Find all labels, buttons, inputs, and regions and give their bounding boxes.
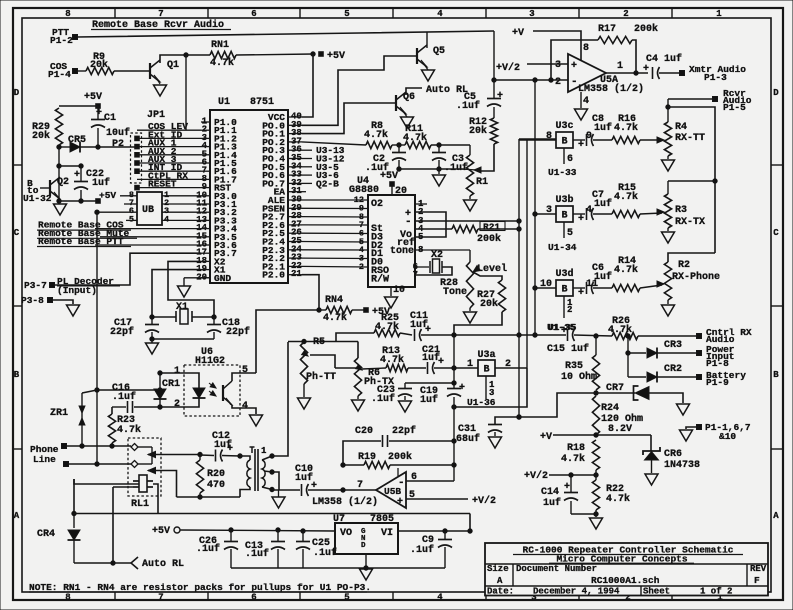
svg-text:C1: C1	[104, 113, 116, 124]
svg-text:NOTE: RN1 - RN4 are resistor p: NOTE: RN1 - RN4 are resistor packs for p…	[29, 582, 371, 593]
svg-text:1uf: 1uf	[420, 394, 438, 406]
svg-text:+: +	[561, 326, 567, 337]
transistor Q2	[40, 187, 50, 189]
svg-text:68uf: 68uf	[456, 433, 480, 445]
transformer ground	[272, 497, 285, 508]
U1 left pin stubs	[201, 121, 210, 123]
svg-text:LM358 (1/2): LM358 (1/2)	[578, 83, 644, 95]
svg-text:1N4738: 1N4738	[664, 460, 700, 471]
JP1 pin wires rows 2-9	[137, 129, 201, 131]
svg-text:22pf: 22pf	[392, 425, 416, 437]
wire +V rail	[553, 434, 651, 436]
wire U1 P2.0 to RN4 rail	[302, 275, 319, 310]
op-amp U5B triangle	[376, 472, 406, 508]
svg-text:tone: tone	[390, 246, 414, 257]
RL1 contact 2	[131, 461, 138, 468]
Q5 emitter ground	[422, 70, 435, 81]
svg-text:B: B	[562, 211, 568, 222]
bus wire x535 opamp to rail	[534, 80, 536, 335]
svg-text:Auto RL: Auto RL	[142, 559, 184, 570]
svg-text:U1-32: U1-32	[23, 193, 52, 204]
svg-text:D: D	[14, 88, 20, 98]
wire U1 EA stub	[302, 191, 306, 193]
svg-text:P1-2: P1-2	[50, 35, 73, 46]
Q5 collector to PTT line	[426, 33, 428, 49]
U1 port0 net labels U3-13 U3-12 U3-5 U3-6 Q2-B	[302, 149, 312, 151]
svg-text:CR6: CR6	[664, 449, 682, 460]
wire +5V down to U1 VCC pin40	[302, 54, 313, 117]
wiper rail y368 to R6	[335, 367, 358, 369]
wire R2 top	[668, 253, 715, 262]
U6 light arrows	[210, 383, 217, 390]
svg-text:20k: 20k	[90, 59, 108, 71]
node P1-1,6,7 and 10	[697, 425, 702, 430]
wire PTT line to C5 top	[77, 31, 494, 37]
svg-text:Level: Level	[477, 263, 507, 275]
svg-text:2: 2	[555, 77, 561, 88]
svg-text:RL1: RL1	[131, 499, 149, 510]
C2-C3 bottom wire to R1 wiper	[399, 168, 465, 170]
svg-text:+: +	[571, 61, 577, 72]
node Xmtr Audio P1-3	[680, 71, 685, 76]
svg-text:RX-Phone: RX-Phone	[672, 271, 720, 283]
wire CR1 top from U6 pin1	[159, 373, 161, 390]
svg-text:(Input): (Input)	[57, 285, 97, 296]
svg-text:C20: C20	[355, 426, 373, 437]
resistor R21 200k	[415, 228, 452, 230]
svg-text:22pf: 22pf	[226, 326, 250, 338]
corner up to R25 rail	[336, 333, 374, 342]
U3d pin10 wire	[535, 287, 556, 289]
svg-text:.1uf: .1uf	[456, 100, 480, 112]
svg-text:GND: GND	[214, 273, 231, 284]
wire upper phone node	[97, 389, 160, 391]
wire C31 net	[495, 393, 596, 424]
svg-text:RN4: RN4	[325, 295, 343, 306]
R27 right leg bottom wire	[454, 312, 502, 335]
RL1 arm2 feed wire down	[112, 487, 114, 563]
wire CR4 to auto RL	[74, 562, 113, 564]
wire rcvr audio node	[668, 98, 715, 100]
node Rcvr Audio P1-5	[713, 97, 718, 102]
potentiometer R27 left body	[469, 250, 471, 262]
svg-text:P1-5: P1-5	[723, 102, 746, 113]
svg-text:7: 7	[357, 480, 363, 491]
U3c pin8 wire	[519, 139, 556, 141]
bus wire x518 R21 to C31 net	[519, 138, 556, 140]
wire U1-36 row	[454, 368, 527, 407]
svg-text:+V/2: +V/2	[524, 470, 548, 482]
border row ticks left/right	[13, 164, 22, 166]
svg-text:4.7k: 4.7k	[117, 424, 141, 436]
svg-text:5: 5	[242, 365, 248, 376]
svg-text:+: +	[227, 444, 233, 455]
Q6 emitter ground	[401, 117, 414, 128]
CR7 ground	[677, 404, 690, 415]
transformer secondary taps	[262, 456, 272, 460]
svg-text:C14: C14	[541, 487, 559, 498]
svg-text:200k: 200k	[634, 23, 658, 35]
C31 ground	[489, 437, 502, 448]
transformer top tap riser to audio rail	[272, 342, 288, 456]
svg-text:P1-4: P1-4	[48, 69, 71, 80]
wire C21 to U3a	[434, 367, 478, 369]
ic U3d	[556, 280, 573, 296]
transformer mid tap wire	[272, 472, 279, 490]
UB pin7 stub	[124, 203, 137, 205]
svg-text:+5V: +5V	[84, 92, 102, 103]
svg-text:1: 1	[716, 9, 722, 19]
svg-text:P2.0: P2.0	[262, 270, 285, 281]
svg-text:B: B	[484, 365, 490, 376]
U5B pin5 wire	[406, 498, 468, 500]
svg-text:R21: R21	[483, 222, 500, 233]
wire U1 P0.0 to Q5 base staircase	[302, 56, 417, 125]
svg-text:3: 3	[555, 60, 561, 71]
svg-text:A: A	[497, 576, 503, 586]
Q1 emitter ground	[157, 79, 160, 84]
wire U1 ALE to U4	[302, 199, 368, 201]
svg-text:RC1000A1.sch: RC1000A1.sch	[591, 575, 660, 586]
svg-text:8: 8	[418, 245, 423, 255]
U1 X2 pin wire to crystal	[168, 261, 214, 317]
crystal bottom rail	[152, 338, 214, 340]
U4 pin3 wire to bus	[415, 220, 519, 222]
transistor Q5	[416, 48, 418, 64]
svg-text:RX-TX: RX-TX	[675, 217, 705, 228]
node +5V at U1 VCC	[319, 52, 324, 57]
node Battery P1-9	[697, 375, 702, 380]
svg-text:B: B	[562, 285, 568, 296]
svg-text:1uf: 1uf	[594, 271, 612, 283]
svg-text:8751: 8751	[250, 97, 274, 108]
svg-text:Sheet: Sheet	[643, 587, 670, 597]
ground below C17	[151, 339, 153, 343]
svg-text:.1uf: .1uf	[371, 393, 395, 405]
svg-text:R18: R18	[567, 443, 585, 454]
ground below C3	[438, 169, 440, 174]
svg-text:LM358 (1/2): LM358 (1/2)	[312, 496, 378, 508]
transformer primary winding	[240, 456, 250, 460]
svg-text:5: 5	[409, 490, 415, 501]
svg-text:8.2V: 8.2V	[608, 424, 632, 435]
svg-text:ZR1: ZR1	[50, 408, 68, 419]
svg-text:2: 2	[623, 9, 628, 19]
wire R29 bottom down to Q2 collector	[58, 147, 60, 200]
U5A pin2 feedback wire	[494, 79, 568, 81]
R6 ground	[357, 396, 359, 399]
svg-text:3: 3	[529, 9, 534, 19]
svg-text:C15 1uf: C15 1uf	[547, 343, 589, 355]
svg-text:Line: Line	[33, 454, 56, 465]
U1 X1 pin wire to crystal	[152, 270, 201, 317]
svg-text:1uf: 1uf	[594, 122, 612, 134]
U5B pin6 wire	[406, 480, 454, 482]
U6 internal LED	[193, 388, 205, 398]
svg-text:6: 6	[411, 472, 417, 483]
svg-text:+: +	[438, 357, 444, 368]
svg-text:RN1: RN1	[211, 40, 229, 51]
svg-text:A: A	[14, 511, 20, 521]
svg-text:4: 4	[583, 96, 589, 107]
U4 tone pin wire to R27	[415, 249, 470, 251]
U4 pin1 stub	[415, 203, 427, 205]
svg-text:8: 8	[583, 43, 589, 54]
svg-text:.1uf: .1uf	[313, 547, 337, 559]
U5A output wire	[606, 72, 648, 74]
long ground return wire	[74, 513, 470, 515]
R20 bottom wire	[177, 496, 241, 498]
title block outline	[485, 543, 768, 596]
svg-text:REV: REV	[750, 564, 767, 574]
svg-text:VI: VI	[381, 528, 393, 539]
svg-text:1: 1	[261, 446, 267, 456]
svg-text:470: 470	[207, 480, 225, 491]
svg-text:U1-33: U1-33	[548, 167, 577, 178]
svg-text:+5V: +5V	[152, 526, 170, 537]
ic U4 G8880 box	[368, 195, 415, 287]
svg-text:20k: 20k	[480, 298, 498, 310]
wire +V to op-amp pin8	[533, 31, 581, 60]
svg-text:+: +	[497, 91, 503, 102]
U6 output transistor	[222, 385, 224, 401]
RL1 coil right wire	[153, 484, 158, 514]
wire CR3 CR2 feed	[627, 336, 629, 377]
svg-text:4.7k: 4.7k	[380, 354, 404, 366]
U3d bottom pin 12 to U1-35	[563, 296, 565, 318]
wire +V/2 to op-amp pin3	[527, 63, 568, 65]
svg-text:RESET: RESET	[148, 179, 177, 190]
svg-text:6: 6	[567, 154, 573, 165]
U6 collector wire to pin5	[232, 373, 256, 381]
node +5V at RN4	[364, 308, 369, 313]
svg-text:-: -	[398, 477, 405, 489]
svg-text:F: F	[754, 575, 760, 586]
ic U3b	[556, 206, 573, 222]
svg-text:+V: +V	[512, 28, 524, 39]
svg-text:U3c: U3c	[555, 121, 573, 132]
RL1 coil	[139, 475, 147, 492]
svg-text:22pf: 22pf	[110, 326, 134, 338]
U3a bottom pin 13	[485, 376, 487, 399]
wire ZR1 top	[82, 390, 97, 393]
svg-text:C: C	[773, 228, 779, 238]
svg-text:R17: R17	[598, 24, 616, 35]
svg-text:1: 1	[174, 366, 180, 377]
svg-text:Tone: Tone	[443, 287, 467, 298]
R15 to R3 wiper wire	[640, 213, 662, 214]
CR6 ground	[645, 474, 658, 485]
svg-text:UB: UB	[142, 205, 154, 216]
Auto RL chevron	[131, 557, 138, 569]
svg-text:+5V: +5V	[99, 190, 116, 201]
transformer core	[254, 449, 256, 491]
svg-text:R/W: R/W	[371, 273, 389, 285]
svg-text:7: 7	[158, 9, 163, 19]
svg-text:Q1: Q1	[167, 60, 179, 71]
svg-text:+: +	[643, 64, 649, 75]
svg-text:B: B	[562, 137, 568, 148]
svg-text:10uf: 10uf	[106, 127, 130, 139]
C23 ground	[399, 401, 412, 412]
svg-text:1: 1	[617, 61, 623, 72]
svg-text:8: 8	[65, 593, 70, 603]
svg-text:2: 2	[567, 305, 572, 315]
svg-text:Size: Size	[487, 564, 509, 574]
svg-text:U3d: U3d	[555, 268, 573, 280]
svg-text:X1: X1	[176, 302, 188, 313]
R6 wiper wire to R13	[362, 368, 386, 369]
U4 right pin bracket	[415, 212, 446, 237]
svg-text:4: 4	[164, 214, 169, 224]
svg-text:R2: R2	[678, 260, 690, 271]
P3-8 wire and ground	[52, 300, 73, 304]
U7 VI wire	[398, 530, 470, 532]
svg-text:R5: R5	[313, 337, 325, 348]
ic U3c	[556, 132, 573, 148]
svg-text:1uf: 1uf	[594, 198, 612, 210]
svg-text:B: B	[14, 370, 20, 380]
svg-text:20k: 20k	[469, 125, 487, 137]
svg-text:.1uf: .1uf	[444, 162, 468, 174]
left long vertical net from UB pin6 to phone area	[96, 212, 98, 464]
wire U1 P0.2 row to R8	[302, 142, 366, 145]
svg-text:+5V: +5V	[380, 171, 398, 182]
U3c bottom pin to U1-33	[563, 148, 565, 164]
wire C22 bottom row	[59, 200, 98, 202]
ic U1 8751 box	[210, 110, 288, 283]
R12 bottom wire to R1 wiper node	[477, 144, 494, 171]
svg-text:5: 5	[129, 214, 134, 224]
R27 wiper arrow	[471, 266, 480, 275]
svg-text:.1uf: .1uf	[196, 543, 220, 555]
svg-text:D: D	[361, 542, 366, 550]
bus wire x527 U3a pin2 riser	[526, 140, 528, 368]
transformer pin 1 tick	[251, 447, 253, 453]
svg-text:20: 20	[395, 186, 407, 197]
ground below U1 GND pin	[184, 277, 210, 279]
svg-text:6: 6	[251, 9, 256, 19]
svg-text:Ph-TT: Ph-TT	[306, 371, 336, 383]
R3 ground	[667, 228, 669, 231]
ic UB box	[137, 192, 162, 225]
U3b pin3 wire	[535, 213, 556, 215]
RL1 arm1 wire	[148, 454, 200, 456]
svg-text:4.7k: 4.7k	[561, 453, 585, 465]
svg-text:R20: R20	[207, 469, 225, 480]
svg-text:.1uf: .1uf	[245, 548, 269, 560]
svg-text:7: 7	[158, 593, 163, 603]
svg-text:R3: R3	[675, 205, 687, 216]
svg-text:+: +	[397, 497, 403, 508]
wire 7805 input loop riser	[469, 514, 471, 532]
wire R9 to Q1 base	[114, 70, 150, 72]
svg-text:U3a: U3a	[477, 350, 495, 361]
svg-text:RX-TT: RX-TT	[675, 133, 705, 144]
svg-text:R1: R1	[476, 177, 488, 188]
svg-text:8: 8	[65, 9, 70, 19]
P1 ground wire	[686, 427, 699, 429]
svg-text:.1uf: .1uf	[410, 544, 434, 556]
svg-text:1: 1	[467, 359, 473, 370]
RL1 contact common bar	[151, 447, 153, 464]
svg-text:P2: P2	[112, 139, 124, 150]
svg-text:P1-3: P1-3	[704, 72, 727, 83]
svg-text:JP1: JP1	[147, 110, 165, 121]
C2-C3 to wiper link	[461, 169, 477, 170]
svg-text:P3-7: P3-7	[24, 280, 47, 291]
wire R26 to Cntrl RX node	[638, 335, 699, 337]
svg-text:CR2: CR2	[664, 364, 682, 375]
U6 LED wires	[160, 373, 199, 388]
Q6 collector wire to Auto RL	[406, 88, 422, 95]
svg-text:1uf: 1uf	[543, 497, 561, 509]
svg-text:C: C	[14, 228, 20, 238]
R5 wiper wire	[310, 355, 335, 368]
RL1 arm2 wire	[148, 471, 177, 498]
UB pin8 +5V wire	[120, 195, 137, 197]
svg-text:6: 6	[251, 593, 256, 603]
wire to CR6	[650, 435, 652, 451]
transistor Q1	[149, 63, 151, 79]
svg-text:2: 2	[174, 399, 180, 410]
svg-text:5: 5	[567, 228, 573, 239]
R2 ground	[667, 300, 669, 304]
U7 ground symbol	[360, 569, 373, 580]
svg-text:4.7k: 4.7k	[614, 191, 638, 203]
svg-text:+V/2: +V/2	[472, 495, 496, 507]
svg-text:+: +	[96, 108, 102, 119]
svg-text:4.7k: 4.7k	[614, 122, 638, 134]
UB pin5 stub	[126, 219, 137, 221]
connector P2 dashed box	[131, 133, 142, 183]
U6 emitter wire to pin4 ground	[232, 405, 256, 414]
svg-text:P1-8: P1-8	[706, 358, 729, 369]
svg-text:+: +	[74, 170, 80, 181]
wire R3 top	[668, 180, 715, 182]
svg-text:+: +	[578, 214, 584, 225]
wire rcvr bus down right	[668, 107, 715, 253]
+5V rail wire	[180, 530, 335, 531]
wire PTT net down to op-amp minus node	[493, 31, 495, 80]
wire R5 top rail	[288, 341, 358, 343]
svg-text:U1: U1	[218, 97, 230, 108]
P2 pads	[135, 136, 140, 141]
svg-text:U1-34: U1-34	[548, 242, 577, 253]
svg-text:Q2-B: Q2-B	[316, 178, 339, 189]
svg-text:R4: R4	[675, 122, 687, 133]
svg-text:Date:: Date:	[487, 587, 514, 597]
UB right pin wires to U1	[162, 195, 201, 197]
svg-text:4.7k: 4.7k	[614, 264, 638, 276]
node Power Input P1-8	[697, 351, 702, 356]
svg-text:4: 4	[242, 401, 248, 412]
svg-text:VO: VO	[340, 528, 352, 539]
wire U1 P0.1 to Q6 base staircase	[302, 103, 396, 134]
node Cntrl RX Audio	[697, 334, 702, 339]
R22 bottom wire	[571, 513, 596, 515]
R1 ground	[469, 196, 471, 199]
U5A pin4 ground	[580, 92, 582, 108]
svg-text:A: A	[773, 511, 779, 521]
R14 to R2 wiper wire	[640, 285, 662, 288]
svg-text:Q6: Q6	[403, 92, 415, 103]
rail R25 to C11	[400, 333, 412, 335]
title block row lines	[485, 563, 768, 565]
R4 ground	[667, 156, 669, 159]
svg-text:-: -	[571, 76, 578, 88]
R16 to R4 wiper wire	[640, 139, 662, 141]
